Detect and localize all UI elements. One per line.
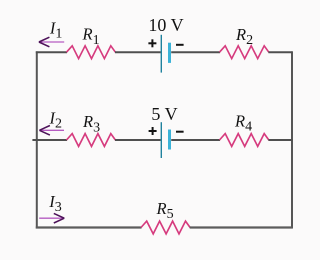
wire: right vertical rail [291,51,293,228]
svg-text:I1: I1 [49,19,63,42]
wire: middle segment battery to R4 [171,139,220,141]
resistor R3 [67,134,116,147]
svg-text:R3: R3 [82,112,100,135]
wire: middle left segment (rail to R3, overshoots left) [32,139,67,141]
svg-text:R5: R5 [156,199,174,222]
plus sign of V2 [149,127,157,135]
wire: top segment battery to R2 [171,51,220,53]
battery V1 10V: short thick negative plate [168,43,171,63]
wire: left vertical rail [36,51,38,228]
battery V1 10V: long positive plate [160,35,162,73]
svg-text:R2: R2 [235,25,253,48]
wire: middle right segment (R4 to rail) [268,139,292,141]
resistor R1 [67,46,116,59]
wire: top segment R1 to battery [115,51,161,53]
resistor R5 [141,221,190,234]
resistor R4 [220,134,269,147]
wire: bottom right segment (R5 to rail) [190,226,293,228]
svg-text:R1: R1 [82,25,100,48]
current arrow I1 [39,37,64,47]
battery V2 5V: long positive plate [160,122,162,158]
wire: top left segment (rail to R1) [36,51,67,53]
svg-text:5 V: 5 V [151,104,177,124]
battery V2 5V: short thick negative plate [168,130,171,150]
wire: bottom left segment (rail to R5) [36,226,142,228]
plus sign of V1 [148,39,156,47]
minus sign of V2 [176,131,184,133]
svg-text:10 V: 10 V [148,15,183,35]
resistor R2 [220,46,269,59]
svg-text:I3: I3 [48,192,62,215]
wire: middle segment R3 to battery [115,139,161,141]
current arrow I3 [39,213,64,223]
svg-text:I2: I2 [49,108,63,131]
minus sign of V1 [176,44,184,46]
wire: top right segment (R2 to rail) [268,51,292,53]
svg-text:R4: R4 [234,111,252,134]
current arrow I2 [39,126,64,136]
